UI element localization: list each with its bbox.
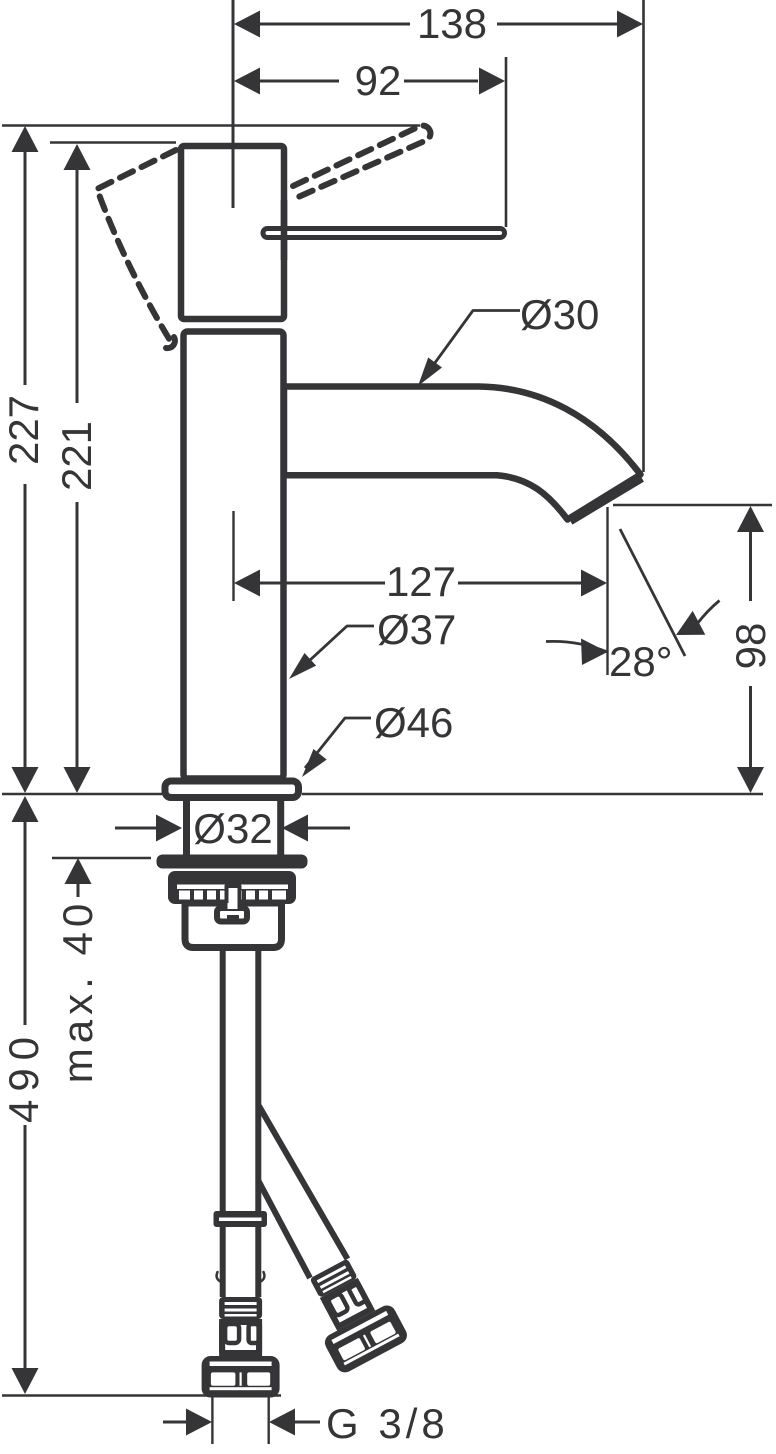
extension line 227 top [2, 124, 420, 126]
counter/deck line [2, 793, 763, 795]
svg-text:98: 98 [727, 623, 774, 670]
mounting washer bar [157, 855, 308, 869]
dimension 127 right arrow [581, 570, 607, 597]
shank walls [187, 801, 281, 855]
28 degree right arc [697, 601, 720, 625]
faucet centerline into handle [232, 140, 235, 208]
drain rod clevis [217, 908, 247, 922]
leader O30 arrow [418, 358, 442, 387]
svg-text:127: 127 [386, 558, 456, 605]
dimension 92 line [260, 80, 478, 83]
clevis notch [228, 903, 238, 909]
extension line: faucet centerline top [232, 0, 235, 208]
dimension G3/8 left line [163, 1421, 186, 1424]
svg-text:Ø37: Ø37 [377, 606, 456, 653]
dashed lever side position [97, 150, 176, 342]
hose coupling [214, 1211, 268, 1227]
svg-text:Ø32: Ø32 [193, 805, 272, 852]
dimension 227 top arrow [12, 126, 39, 152]
hose lower walls [223, 1227, 259, 1297]
dimension 227 bottom arrow [12, 767, 39, 793]
bottom reference line [2, 1394, 281, 1396]
escutcheon flange [165, 781, 299, 798]
locknut body [168, 871, 296, 904]
svg-text:G 3/8: G 3/8 [326, 1400, 449, 1447]
svg-text:Ø46: Ø46 [374, 699, 453, 746]
dimension 490 top arrow [12, 796, 39, 822]
locknut slit [177, 885, 288, 890]
faucet handle block [181, 146, 284, 319]
dimension 490 line [24, 822, 27, 1368]
28 degree ray [620, 529, 685, 656]
extension line: right spout edge [642, 0, 645, 472]
dimension 490 bottom arrow [12, 1368, 39, 1394]
spout aerator band [570, 478, 642, 521]
svg-text:max. 40: max. 40 [54, 899, 101, 1083]
under-counter body [185, 903, 282, 948]
28 degree right arc arrow [676, 611, 705, 635]
leader O46 arrow [302, 749, 327, 777]
dimension 127 extension right [606, 507, 608, 675]
svg-text:221: 221 [53, 421, 100, 491]
dimension 221 top arrow [64, 144, 91, 170]
drain rod [227, 886, 240, 906]
max 40 extension line [52, 857, 151, 859]
dimension 138 right arrow [617, 11, 643, 38]
dashed lever side end hook [166, 337, 175, 348]
dimension G3/8 right line [295, 1421, 320, 1424]
28 degree left arc [546, 641, 608, 652]
svg-text:490: 490 [0, 1029, 47, 1123]
dimension 92 right arrow [479, 68, 505, 95]
dimension 221 bottom arrow [64, 767, 91, 793]
dashed lever raised position [293, 126, 430, 198]
dimension 221 line [76, 170, 79, 767]
dimension 227 line [24, 152, 27, 768]
dimension G3/8 left arrow [186, 1409, 212, 1436]
supply hose vertical walls [223, 951, 259, 1211]
locknut serration band [179, 891, 286, 900]
faucet body column [184, 332, 284, 779]
faucet handle lever [263, 229, 505, 238]
dimension G3/8 ext lines [212, 1397, 268, 1444]
extension line: lever end (92) [505, 57, 508, 227]
extension line 221 top [50, 141, 176, 143]
dimension 138 left arrow [234, 11, 260, 38]
28 degree left arc arrow [581, 639, 608, 666]
dimension 98 top arrow [737, 506, 764, 532]
dimension 127 left arrow [234, 570, 260, 597]
dimension 98 line [749, 532, 752, 767]
dimension O32 left arrow [156, 815, 182, 842]
svg-text:Ø30: Ø30 [520, 291, 599, 338]
diagonal hose walls [258, 1106, 348, 1278]
dimension 127 extension left [232, 511, 234, 601]
dimension G3/8 right arrow [269, 1409, 295, 1436]
dimension 98 bottom arrow [737, 767, 764, 793]
dimension 127 line [260, 582, 581, 585]
svg-text:138: 138 [417, 0, 487, 47]
handle block right edge over lever [281, 200, 288, 260]
hose coupling slit [219, 1218, 262, 1222]
leader O37 [296, 626, 374, 673]
svg-text:92: 92 [355, 57, 402, 104]
dimension 138 line [260, 23, 618, 26]
leader O46 [305, 718, 371, 768]
svg-text:28°: 28° [609, 638, 673, 685]
hose break marks [217, 1272, 265, 1282]
dimension O32 right line [308, 827, 350, 830]
svg-text:227: 227 [0, 395, 47, 465]
max 40 up arrow [65, 858, 92, 884]
dimension 98 top extension line [613, 504, 772, 506]
left hose fitting [202, 1297, 280, 1398]
dimension 92 left arrow [234, 68, 260, 95]
faucet spout [284, 387, 641, 520]
clevis inner mark [227, 915, 239, 921]
locknut serration ticks [192, 891, 270, 900]
max 40 stub line [77, 884, 80, 897]
leader O37 arrow [289, 653, 316, 679]
dimension O32 right arrow [282, 815, 308, 842]
angled hose fitting [294, 1250, 410, 1375]
leader O30 [421, 311, 520, 383]
dimension O32 left line [115, 827, 156, 830]
